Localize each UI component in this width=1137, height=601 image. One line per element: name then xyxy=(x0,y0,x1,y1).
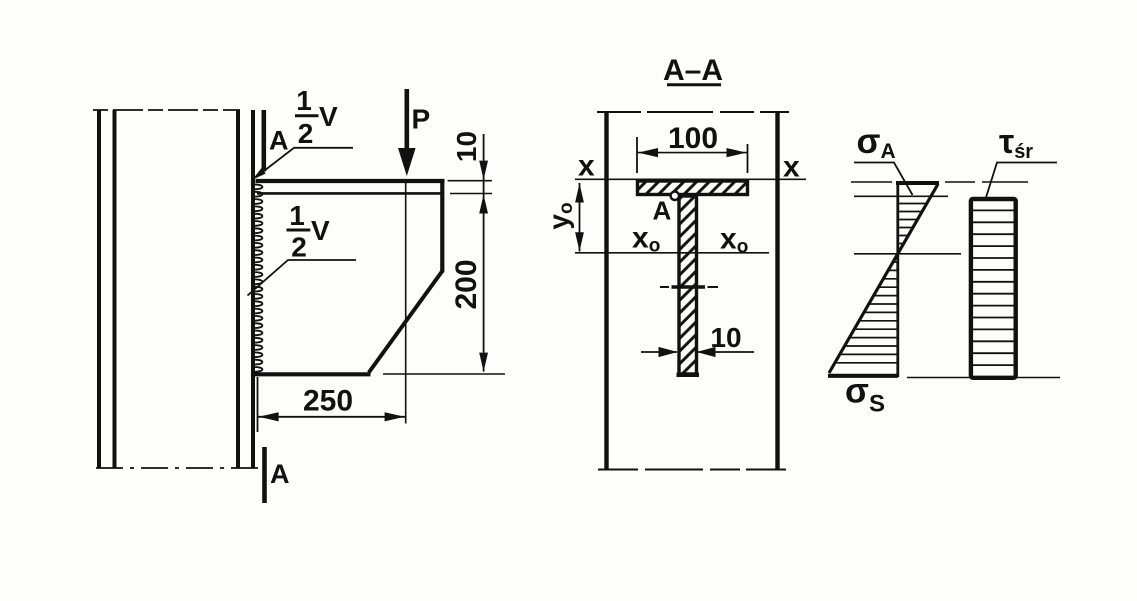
svg-text:A: A xyxy=(653,196,672,226)
dim y0 arrow up xyxy=(575,184,584,203)
gusset bottom edge xyxy=(255,372,371,376)
section frame right vertical xyxy=(775,112,779,470)
sigma diagram vertical axis xyxy=(896,181,899,377)
weld seam scallops xyxy=(255,185,263,372)
column flange line 3 (inner right) xyxy=(236,110,240,468)
force P arrowhead xyxy=(398,148,416,176)
bracket top plate bottom edge xyxy=(257,192,441,195)
svg-text:x: x xyxy=(783,151,800,184)
axis x-x line xyxy=(575,178,806,180)
svg-text:x: x xyxy=(578,150,595,183)
vertical dimension line 10 + 200 xyxy=(483,134,485,372)
dimension line 100 xyxy=(637,152,748,154)
svg-text:1: 1 xyxy=(289,200,305,231)
extension line top for dim 10 (plate top) xyxy=(448,180,492,182)
svg-text:2: 2 xyxy=(298,118,314,149)
leader sigma_A xyxy=(854,163,913,196)
T-section flange (hatched) xyxy=(638,181,748,195)
extension line for dim 10 / 200 (plate bottom) xyxy=(450,193,492,195)
svg-text:200: 200 xyxy=(450,259,483,309)
web bottom end cap xyxy=(677,373,700,377)
section cut line A (bottom) xyxy=(262,447,267,503)
sigma diagram hypotenuse xyxy=(829,184,938,373)
force P arrow shaft xyxy=(404,89,409,151)
leader line for top 1/2 V weld xyxy=(256,148,354,178)
dim 10 web: right leader xyxy=(697,351,754,353)
svg-text:A: A xyxy=(270,459,290,489)
arrow dim 200 bottom (down onto bracket bottom) xyxy=(479,353,488,372)
dim 10 web: left leader xyxy=(641,351,677,353)
dim y0 line xyxy=(579,183,581,252)
leader arrowhead at plate corner xyxy=(253,168,266,179)
axis x0 line xyxy=(575,252,769,254)
gusset diagonal edge xyxy=(369,271,443,373)
extension line right for dim 250 (under P) xyxy=(405,181,407,424)
bracket top plate right edge + gusset right edge xyxy=(440,179,444,273)
sigma diagram level line (flange bottom) xyxy=(854,195,948,197)
leader tau_sr xyxy=(986,163,1058,200)
dim 100 extension right xyxy=(747,144,749,173)
column flange line 2 (inner left) xyxy=(113,110,117,468)
sigma hatch (tension, above neutral axis) xyxy=(898,204,927,252)
extension line left for dim 250 xyxy=(257,377,259,432)
svg-text:1: 1 xyxy=(296,85,312,116)
sigma diagram top edge xyxy=(896,181,939,185)
web centre mark xyxy=(660,286,669,288)
svg-text:10: 10 xyxy=(451,131,482,162)
dim y0 arrow down xyxy=(575,232,584,251)
dashed level line to tau diagram xyxy=(945,181,1032,183)
sigma hatch (compression, below neutral axis) xyxy=(835,262,898,363)
dimension line 250 xyxy=(258,416,406,418)
sigma diagram bottom edge xyxy=(828,374,898,378)
tau rectangle (hatched horizontally) xyxy=(971,210,1016,365)
arrow dim 10 (down onto plate top) xyxy=(479,161,488,180)
sigma diagram level line (top flange) xyxy=(851,181,892,183)
svg-text:A–A: A–A xyxy=(663,54,723,87)
title underline xyxy=(667,83,721,86)
T-section web (hatched) xyxy=(679,196,697,374)
section frame top dashed line xyxy=(597,111,789,113)
svg-text:A: A xyxy=(269,126,289,156)
column flange line 4 (outer right) xyxy=(251,110,255,468)
arrow dim 200 top (up onto plate bottom) xyxy=(479,195,488,214)
column bottom dashed edge xyxy=(96,467,258,469)
leader line for bottom 1/2 V weld xyxy=(248,260,357,296)
neutral axis level line xyxy=(854,253,961,255)
svg-text:V: V xyxy=(311,215,330,246)
column top dashed edge xyxy=(93,109,240,111)
bracket top plate top edge xyxy=(256,179,445,183)
section cut line A (top) xyxy=(261,110,266,172)
baseline under diagrams xyxy=(907,377,1060,379)
column flange line 1 (outer left) xyxy=(97,110,101,468)
svg-text:10: 10 xyxy=(710,322,741,353)
dim 100 extension left xyxy=(636,137,638,173)
svg-text:P: P xyxy=(412,104,431,135)
svg-text:250: 250 xyxy=(303,385,353,418)
extension line bottom for dim 200 xyxy=(383,373,505,375)
svg-text:V: V xyxy=(319,101,338,132)
section frame left vertical xyxy=(604,112,608,470)
svg-text:100: 100 xyxy=(668,122,718,155)
section frame bottom dashed line xyxy=(598,469,787,471)
point A marker circle xyxy=(671,192,679,200)
svg-text:2: 2 xyxy=(291,232,307,263)
